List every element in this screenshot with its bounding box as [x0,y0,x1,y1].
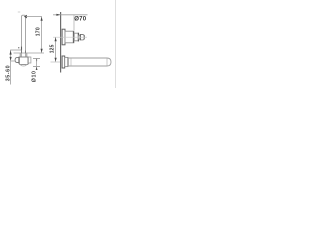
extension line valve front [73,15,75,30]
left extension line upper [10,49,21,51]
vertical dimension line 125 [55,37,57,62]
left vertical dimension line [10,50,12,85]
svg-text:125: 125 [50,44,56,53]
arrow at handle tip pointing left [24,15,27,19]
valve body front edge [73,31,75,42]
spout rounded end [107,58,111,66]
cartridge cylinder [74,33,78,41]
collar bottom edge [19,56,28,58]
svg-text:170: 170 [36,27,42,36]
spout joint near base [70,58,72,65]
extension line body top [14,52,45,54]
centerline spout stub [51,61,61,63]
collar nubs above body line [22,51,26,54]
left extension line lower [11,60,16,62]
arrowhead right at wall [56,14,60,16]
arrowhead down (dim 125) [55,58,57,62]
svg-text:Ø70: Ø70 [74,15,87,22]
page divider border right [115,0,117,88]
tick spout top (left view) [33,58,40,60]
spout base collar [65,57,68,66]
spout flange plate [62,56,65,68]
bump under body [21,65,27,66]
handle right edge [83,35,85,39]
handle collar [20,53,27,57]
valve body (side view) [19,57,28,65]
body right edge [27,57,29,64]
handle stem [79,36,81,39]
aerator outlet cap pointing left [15,58,19,63]
pipe junction tick [21,47,23,51]
arrowhead up (left dim) [10,50,12,54]
escutcheon plate (right view) [62,29,65,45]
cartridge front edge [77,33,79,42]
wall line (right view) [60,12,62,73]
spout base front edge [67,58,69,67]
faint dash above handle [18,11,20,13]
arrowhead up (dim 170 top) [41,17,43,21]
arrowhead down (dim 170 bottom) [41,49,43,53]
vertical dimension line 170 [41,16,43,53]
arrowhead down (left dim) [10,57,12,61]
collar inner lines [22,53,26,57]
small vertical dimension line [36,58,38,70]
svg-text:Ø10: Ø10 [32,71,38,83]
handle knob [80,35,84,40]
body left edge [18,57,20,64]
wall bracket behind body [28,57,31,63]
valve body (right view) [65,31,74,43]
top dimension line [53,14,88,16]
small tick left of pipe [18,47,19,48]
spout tube [68,58,107,66]
handle left edge [79,34,81,40]
lever handle pipe (side view) [22,15,26,53]
extension line from handle top [26,15,42,17]
tick spout bottom (left view) [33,66,40,68]
cap separator line [18,57,20,62]
arrow below lower tick [36,67,38,70]
centerline valve [53,36,87,38]
dark segment below upper tick [36,59,38,62]
spout end cap joint [106,58,108,66]
svg-text:35-60: 35-60 [5,65,11,81]
arrowhead up (dim 125) [55,38,57,42]
